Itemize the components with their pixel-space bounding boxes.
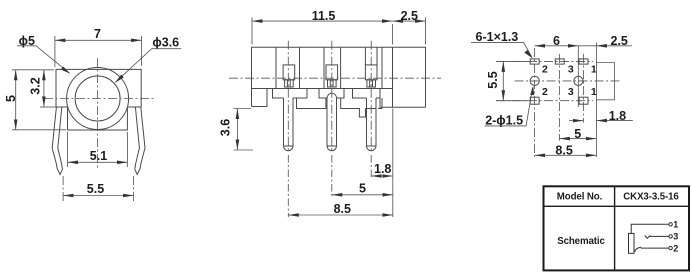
footprint row centerline top [496, 60, 593, 62]
side view leg 3 [367, 98, 377, 151]
schematic wire to pin 2 [641, 247, 669, 249]
svg-text:1: 1 [673, 220, 678, 230]
side view pin 2 centerline [331, 41, 333, 153]
dimension 1.8 (side) [371, 155, 393, 178]
dimension 3.2 [29, 70, 57, 107]
dimension 6-1×1.3 leader [471, 30, 533, 58]
svg-text:8.5: 8.5 [334, 202, 351, 216]
footprint hole 1 φ1.5 [530, 76, 539, 85]
dimension φ5 leader [17, 34, 70, 74]
schematic sleeve contact [629, 233, 635, 253]
side view pin slot 2 [326, 65, 338, 87]
side view body outline [252, 47, 426, 107]
svg-text:2: 2 [673, 243, 678, 253]
schematic switch contact tick [645, 235, 651, 238]
svg-text:6: 6 [553, 34, 560, 48]
svg-text:3.6: 3.6 [219, 119, 233, 136]
svg-text:11.5: 11.5 [312, 9, 336, 23]
front view vertical centerline [97, 58, 99, 170]
footprint pad 1 bottom [579, 97, 588, 104]
dimension 11.5 [252, 9, 393, 44]
svg-text:2.5: 2.5 [401, 9, 418, 23]
footprint pad 2 top [530, 59, 539, 64]
side view standoff shoulder 1 [273, 89, 308, 99]
svg-text:5: 5 [574, 127, 581, 141]
footprint middle centerline [515, 80, 623, 82]
dimension 8.5 (side) [288, 109, 393, 218]
front view lower block [68, 107, 128, 130]
side view horizontal centerline [229, 77, 441, 79]
side view pin 3 centerline [370, 41, 372, 153]
svg-text:1.8: 1.8 [374, 162, 391, 176]
svg-text:3: 3 [568, 64, 574, 76]
dimension 5 (footprint) [559, 127, 596, 141]
front view outer circle φ5 [67, 68, 129, 130]
dimension 7 (front width) [55, 27, 142, 67]
footprint barrel protrusion outline [596, 63, 614, 100]
svg-text:5.1: 5.1 [90, 149, 107, 163]
front view horizontal centerline [44, 98, 154, 100]
dimension 5.1 [68, 132, 128, 167]
front view left spring leg [52, 107, 62, 175]
footprint pad 3 top [555, 59, 564, 64]
dimension 2.5 (side top) [393, 9, 426, 44]
schematic wire to pin 1 [631, 224, 669, 233]
side view lower tier between legs [297, 98, 383, 117]
dimension 3.6 (side) [219, 109, 254, 151]
svg-text:3.2: 3.2 [29, 77, 43, 94]
svg-text:3: 3 [673, 232, 678, 242]
front view right spring leg [135, 107, 145, 175]
side view standoff shoulder 3 [353, 89, 381, 99]
svg-text:1: 1 [591, 64, 597, 76]
footprint column centerline 3 [582, 54, 584, 123]
schematic pin 2 terminal [669, 246, 672, 249]
dimension 5.5 (footprint) [486, 61, 528, 100]
svg-text:Model No.: Model No. [557, 192, 603, 203]
dimension 1.8 (footprint) [569, 109, 633, 123]
footprint column centerline 2 [558, 54, 560, 141]
table border [544, 186, 690, 270]
svg-text:2: 2 [542, 64, 548, 76]
side view standoff shoulder 2 with dome notch [319, 89, 344, 99]
side view pin slot 1 [283, 65, 295, 87]
side view barrel [380, 47, 426, 107]
dimension 5 (side) [332, 155, 393, 197]
svg-text:5: 5 [4, 95, 18, 102]
side view pin 1 centerline [287, 41, 289, 153]
svg-text:8.5: 8.5 [555, 144, 572, 158]
svg-text:1: 1 [591, 86, 597, 98]
side view pin slot 3 [365, 47, 377, 87]
dimension 2-φ1.5 leader [485, 86, 535, 128]
dimension 6 (footprint) [535, 34, 579, 48]
svg-text:5.5: 5.5 [486, 71, 500, 88]
footprint column centerline hole 2 [577, 46, 579, 107]
svg-text:5: 5 [359, 182, 366, 196]
svg-text:7: 7 [94, 27, 101, 41]
dimension 2.5 (footprint) [578, 34, 632, 48]
footprint reference edge line [595, 43, 597, 158]
svg-text:2.5: 2.5 [611, 34, 628, 48]
footprint pad 2 bottom [530, 97, 539, 104]
svg-text:ϕ3.6: ϕ3.6 [152, 36, 179, 50]
side view internal vertical lines [276, 47, 382, 88]
svg-text:Schematic: Schematic [557, 236, 605, 247]
dimension φ3.6 leader [115, 36, 182, 83]
svg-text:2: 2 [542, 86, 548, 98]
svg-text:5.5: 5.5 [87, 182, 104, 196]
footprint hole 2 φ1.5 [574, 76, 583, 85]
dimension 5.5 [63, 176, 134, 202]
footprint pad 1 top [579, 59, 588, 64]
svg-text:CKX3-3.5-16: CKX3-3.5-16 [623, 192, 679, 203]
svg-text:1.8: 1.8 [609, 109, 626, 123]
front view body rectangle [56, 69, 141, 107]
dimension 8.5 (footprint) [535, 144, 597, 158]
side view leg 1 [284, 98, 294, 151]
schematic moving contact stroke [635, 247, 642, 252]
schematic pin 3 terminal [669, 235, 672, 238]
dimension 5 (front height) [4, 70, 66, 130]
schematic wire to pin 3 [650, 235, 669, 237]
svg-text:3: 3 [568, 86, 574, 98]
front view inner circle φ3.6 [75, 76, 120, 121]
footprint column centerline pin hole 1 [534, 48, 536, 157]
schematic pin 1 terminal [669, 223, 672, 226]
side view leg 2 [327, 98, 337, 151]
footprint row centerline bottom [496, 100, 593, 102]
